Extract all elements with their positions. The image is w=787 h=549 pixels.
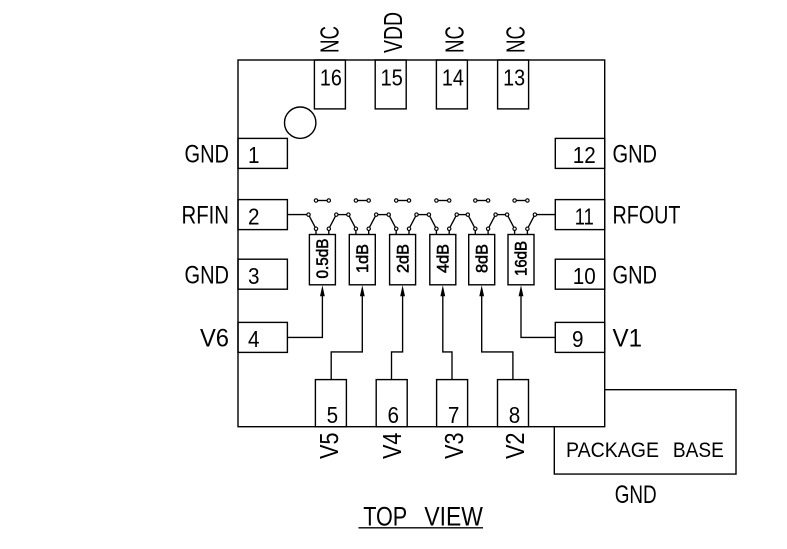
svg-text:15: 15 — [380, 65, 403, 91]
svg-text:V3: V3 — [441, 433, 469, 460]
svg-text:16dB: 16dB — [512, 241, 531, 276]
wire V3 pin 7 to 4dB control, with arrowhead — [440, 285, 452, 379]
pin 6 pad — [376, 380, 407, 428]
svg-text:0.5dB: 0.5dB — [313, 239, 332, 279]
pin 8 pad — [498, 380, 529, 428]
pin 7 pad — [437, 380, 468, 428]
pin 1 indicator circle — [285, 107, 316, 138]
svg-text:8: 8 — [509, 402, 521, 428]
svg-text:BASE: BASE — [673, 438, 724, 462]
package base paddle box — [554, 390, 736, 474]
attenuator 4dB block with bypass switch (stage 4) — [427, 199, 458, 285]
attenuator 16dB block with bypass switch (stage 6) — [505, 199, 536, 285]
wire between attenuator stage 2 and 3 — [376, 214, 389, 216]
svg-text:9: 9 — [572, 326, 584, 352]
svg-text:13: 13 — [503, 65, 525, 91]
attenuator 1dB block with bypass switch (stage 2) — [347, 199, 378, 285]
svg-text:V6: V6 — [200, 325, 229, 353]
svg-text:16: 16 — [320, 65, 342, 91]
wire V1 pin 9 to 16dB control, with arrowhead — [519, 285, 556, 337]
svg-text:14: 14 — [442, 65, 464, 91]
svg-text:NC: NC — [317, 26, 345, 53]
wire between attenuator stage 1 and 2 — [336, 214, 348, 216]
svg-text:10: 10 — [573, 263, 596, 289]
wire between attenuator stage 4 and 5 — [457, 214, 468, 216]
svg-text:V5: V5 — [316, 433, 344, 460]
svg-text:RFIN: RFIN — [182, 202, 230, 230]
label PACKAGE BASE — [566, 438, 724, 462]
pin 2 pad — [238, 200, 287, 230]
svg-text:7: 7 — [448, 402, 460, 428]
wire V4 pin 6 to 2dB control, with arrowhead — [392, 285, 406, 379]
svg-text:PACKAGE: PACKAGE — [566, 438, 659, 462]
svg-text:1dB: 1dB — [353, 244, 372, 273]
svg-text:2: 2 — [248, 203, 260, 229]
svg-text:GND: GND — [613, 141, 658, 169]
svg-text:GND: GND — [185, 141, 230, 169]
wire V6 pin 4 to 0.5dB control, with arrowhead — [287, 285, 324, 337]
pin 9 pad — [555, 322, 604, 352]
pin 13 pad — [498, 60, 529, 109]
package outline (QFN body, top view) — [238, 60, 605, 427]
svg-text:8dB: 8dB — [472, 244, 491, 273]
svg-text:4dB: 4dB — [434, 244, 453, 273]
pin 5 pad — [315, 380, 346, 428]
wire between attenuator stage 3 and 4 — [417, 214, 429, 216]
svg-text:VDD: VDD — [380, 12, 408, 53]
svg-text:4: 4 — [248, 326, 260, 352]
title TOP VIEW — [359, 501, 484, 531]
pin 16 pad — [314, 60, 345, 109]
pin 14 pad — [436, 60, 467, 109]
attenuator 8dB block with bypass switch (stage 5) — [466, 199, 497, 285]
wire last switch pivot to RFOUT pin 11 — [535, 214, 555, 216]
svg-text:NC: NC — [441, 26, 469, 53]
pin 10 pad — [555, 259, 604, 289]
svg-text:GND: GND — [615, 481, 657, 509]
svg-text:GND: GND — [613, 261, 658, 289]
pin 3 pad — [238, 259, 287, 289]
wire V5 pin 5 to 1dB control, with arrowhead — [331, 285, 365, 379]
svg-text:VIEW: VIEW — [424, 501, 483, 531]
svg-text:6: 6 — [387, 402, 399, 428]
wire V2 pin 8 to 8dB control, with arrowhead — [479, 285, 513, 379]
svg-text:1: 1 — [248, 142, 260, 168]
svg-text:GND: GND — [185, 261, 230, 289]
pin 12 pad — [555, 138, 604, 168]
svg-text:2dB: 2dB — [393, 244, 412, 273]
pin 4 pad — [238, 322, 287, 352]
pin 11 pad — [555, 200, 604, 230]
svg-text:3: 3 — [248, 263, 260, 289]
attenuator 0.5dB block with bypass switch (stage 1) — [307, 199, 338, 285]
svg-text:V4: V4 — [379, 433, 407, 460]
svg-text:11: 11 — [575, 203, 594, 229]
svg-text:NC: NC — [503, 26, 531, 53]
svg-text:5: 5 — [327, 402, 339, 428]
pin 15 pad — [375, 60, 406, 109]
wire RFIN pin 2 to first switch pivot — [287, 214, 308, 216]
svg-text:V1: V1 — [613, 325, 643, 353]
attenuator 2dB block with bypass switch (stage 3) — [387, 199, 418, 285]
wire between attenuator stage 5 and 6 — [496, 214, 508, 216]
svg-text:RFOUT: RFOUT — [613, 202, 681, 230]
svg-text:12: 12 — [573, 142, 596, 168]
svg-text:V2: V2 — [502, 433, 530, 460]
svg-text:TOP: TOP — [363, 501, 407, 531]
pin 1 pad — [238, 138, 287, 168]
